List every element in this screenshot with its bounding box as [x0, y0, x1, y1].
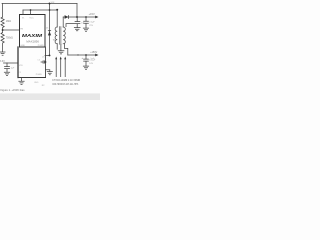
ground C1: [4, 72, 9, 75]
transformer T1 primary lead top: [56, 10, 58, 27]
junction dot divider mid: [2, 29, 4, 31]
svg-text:3.3V: 3.3V: [0, 61, 5, 63]
capacitor C3: [84, 17, 89, 28]
wire FB: [3, 29, 20, 31]
junction dot output top at rail drop: [76, 16, 78, 18]
svg-text:25V: 25V: [89, 25, 93, 27]
wire input VIN: [4, 62, 19, 64]
transformer T1 core: [60, 27, 61, 45]
diode D1 clamp: [48, 31, 51, 35]
background: [0, 0, 100, 100]
svg-text:Figure 1. +150V bias: Figure 1. +150V bias: [1, 88, 26, 92]
callout arrowhead right: [64, 57, 66, 60]
ground snubber: [74, 28, 80, 31]
wire ground bus: [18, 77, 46, 79]
wire VCC rail: [23, 9, 57, 11]
IC U1 body: [20, 15, 46, 48]
junction dot clamp rail: [49, 9, 51, 11]
svg-text:PGND: PGND: [38, 45, 45, 47]
junction dot primary top: [56, 9, 58, 11]
wire GND pin down: [17, 47, 19, 78]
junction dot output top at C3: [85, 16, 87, 18]
transformer T1 secondary lead top: [62, 17, 64, 27]
wire LX pin down: [45, 47, 47, 78]
junction dot output lower at C4: [85, 54, 87, 56]
junction dot clamp top: [49, 3, 51, 5]
transformer T1 secondary winding: [63, 27, 65, 44]
resistor R2: [1, 30, 4, 52]
svg-text:VIN: VIN: [51, 2, 55, 4]
capacitor C1: [5, 63, 10, 72]
svg-text:MAX1856: MAX1856: [26, 40, 39, 44]
svg-text:VIN: VIN: [19, 65, 23, 67]
pin stub top right: [30, 10, 32, 15]
junction dot snubber cap: [45, 61, 47, 63]
svg-text:750kΩ: 750kΩ: [6, 37, 13, 40]
wire top rail drop right: [76, 4, 78, 18]
wire output lower: [68, 54, 96, 56]
arrowhead output top: [95, 16, 98, 19]
svg-text:+15V: +15V: [89, 12, 95, 16]
transformer T1 secondary lead bottom jog: [64, 44, 67, 55]
wire top rail: [2, 3, 77, 5]
svg-text:VCC: VCC: [29, 18, 34, 20]
ground transformer: [58, 51, 64, 54]
junction dot LX jog: [49, 54, 51, 56]
diode D2 rectifier: [65, 15, 69, 19]
wire clamp vertical: [49, 4, 51, 56]
ground C3: [83, 28, 88, 31]
svg-text:COILTRONICS 407-241-7876: COILTRONICS 407-241-7876: [52, 84, 79, 86]
junction dot output lower small: [77, 54, 78, 55]
svg-text:MAXIM: MAXIM: [22, 33, 43, 38]
pin stub top left: [22, 10, 24, 15]
transformer T1 primary winding: [55, 27, 57, 44]
svg-text:GND: GND: [34, 82, 39, 84]
svg-text:GND: GND: [20, 45, 25, 47]
ground PGND: [47, 72, 52, 75]
svg-text:5mA: 5mA: [90, 57, 95, 60]
callout arrowhead mid: [60, 57, 62, 60]
resistor R1: [1, 17, 4, 30]
wire PGND branch: [46, 70, 50, 71]
svg-text:CTX03-14989 1:10 XFMR: CTX03-14989 1:10 XFMR: [52, 80, 80, 82]
callout arrow shafts: [56, 59, 65, 77]
wire diode output line: [63, 16, 95, 18]
capacitor C4: [84, 55, 89, 66]
bottom gray band: [0, 93, 100, 100]
snubber path across D2: [66, 17, 80, 27]
arrowhead output lower: [95, 54, 98, 57]
ground divider: [0, 52, 5, 55]
svg-text:PGND: PGND: [36, 74, 43, 76]
wire left drop to divider: [2, 4, 4, 18]
transformer T1 center ground stub: [60, 44, 62, 50]
transformer T1 primary lead bottom: [56, 44, 58, 50]
wire LX jog: [45, 54, 50, 56]
junction dot rail pin2: [30, 9, 32, 11]
svg-text:+150V: +150V: [90, 51, 97, 54]
ground bus symbol: [19, 78, 24, 85]
callout arrowhead left: [55, 57, 57, 60]
svg-text:1MΩ: 1MΩ: [6, 20, 11, 23]
svg-text:16V: 16V: [89, 63, 93, 65]
svg-text:2.2µF: 2.2µF: [89, 22, 95, 24]
ground C4: [83, 66, 88, 69]
capacitor C5 snubber: [41, 61, 46, 64]
